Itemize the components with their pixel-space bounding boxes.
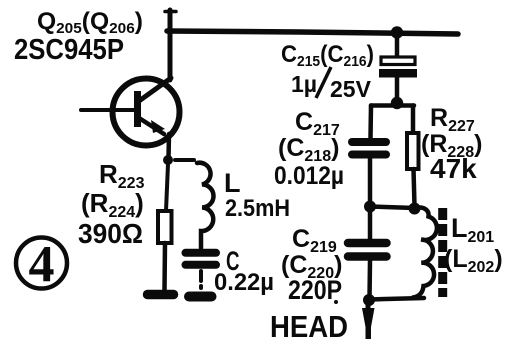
capacitor C215 — [379, 57, 417, 78]
wire R223 to ground — [162, 243, 167, 290]
wire C219 down — [367, 261, 372, 298]
wire middle horizontal — [370, 207, 415, 209]
wire C217 down — [368, 158, 373, 205]
node split junction — [391, 97, 403, 109]
node top rail junction — [391, 26, 403, 38]
wire right branch down — [411, 106, 416, 134]
svg-text:4: 4 — [29, 236, 55, 293]
capacitor C217 — [352, 142, 386, 155]
svg-text:220P: 220P — [288, 275, 342, 305]
wire collector rail vertical — [168, 10, 173, 80]
svg-text:HEAD: HEAD — [270, 309, 348, 344]
capacitor C — [186, 253, 217, 288]
inductor L201 — [413, 208, 437, 298]
svg-text:390Ω: 390Ω — [78, 218, 143, 249]
ground under C — [189, 292, 212, 302]
ground under R223 — [148, 290, 174, 300]
svg-text:25V: 25V — [330, 76, 372, 102]
wire rail to C215 — [395, 33, 400, 56]
core of L201 dashed bar — [438, 208, 447, 297]
wire to R223 — [166, 164, 168, 211]
inductor L — [197, 163, 214, 248]
wire top tick — [165, 10, 176, 14]
wire bottom horizontal — [369, 298, 424, 300]
speck — [334, 300, 338, 304]
svg-text:0.22µ: 0.22µ — [214, 269, 274, 296]
svg-text:47k: 47k — [430, 153, 477, 184]
wire left branch down — [368, 106, 373, 139]
node bottom junction — [363, 294, 375, 306]
transistor Q205 — [81, 78, 180, 146]
resistor R223 — [158, 211, 172, 243]
wire dashed link to L — [175, 158, 194, 162]
wire to C219 — [368, 208, 373, 239]
wire R227 down — [414, 169, 415, 206]
wire C215 down — [395, 77, 400, 100]
node C217 bottom junction — [364, 201, 376, 213]
svg-text:1µ: 1µ — [291, 71, 317, 97]
callout 4 — [16, 236, 67, 293]
svg-text:0.012µ: 0.012µ — [274, 162, 344, 190]
label 1u/25V — [291, 67, 372, 102]
wire emitter lead — [166, 134, 171, 158]
wire split bar — [371, 103, 414, 108]
arrow to head — [362, 308, 375, 339]
capacitor C219 — [348, 243, 387, 257]
svg-text:L: L — [224, 168, 241, 198]
resistor R227 — [407, 133, 419, 169]
node emitter junction — [163, 155, 173, 165]
svg-text:2.5mH: 2.5mH — [225, 195, 290, 222]
node R227 bottom junction — [409, 203, 421, 215]
wire top horizontal rail — [167, 31, 458, 34]
svg-text:2SC945P: 2SC945P — [14, 34, 124, 66]
